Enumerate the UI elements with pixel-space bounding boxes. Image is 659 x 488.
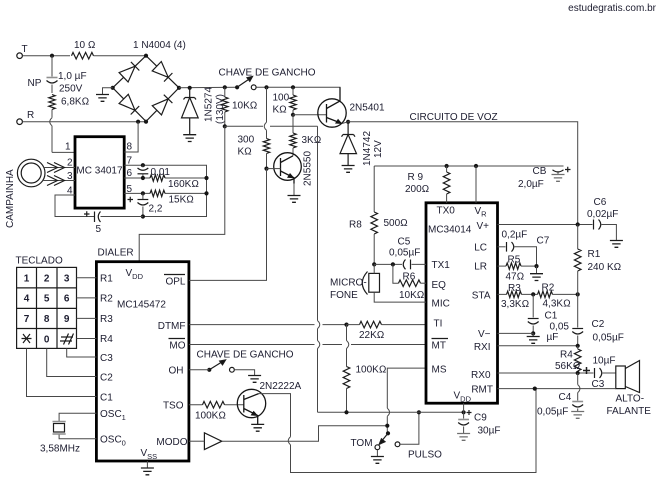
svg-text:NP: NP (28, 78, 42, 89)
wire VB rail 166 (374, 165, 557, 167)
svg-text:R2: R2 (542, 283, 555, 294)
svg-text:MS: MS (432, 365, 447, 376)
switch PULSO contact circle (395, 442, 400, 447)
wire 10ohm to bridge top (94, 55, 147, 57)
svg-text:100KΩ: 100KΩ (195, 411, 226, 422)
svg-text:22KΩ: 22KΩ (359, 330, 384, 341)
wire RMT row to speaker (498, 388, 616, 390)
diode D2 top-right (152, 62, 172, 82)
wire V+ row (498, 224, 593, 226)
svg-text:C9: C9 (474, 413, 487, 424)
svg-text:KΩ: KΩ (273, 105, 287, 116)
svg-text:MIC: MIC (432, 299, 450, 310)
node VDD C9 junction (462, 410, 466, 414)
capacitor C3 10uF polarized (583, 367, 616, 378)
svg-text:C1: C1 (545, 311, 558, 322)
svg-text:2N5550: 2N5550 (303, 151, 314, 186)
svg-text:estudegratis.com.br: estudegratis.com.br (568, 3, 656, 14)
svg-text:FALANTE: FALANTE (607, 406, 652, 417)
svg-text:TECLADO: TECLADO (16, 256, 63, 267)
svg-text:C7: C7 (537, 236, 550, 247)
resistor 160K (150, 175, 165, 181)
wire OH to switch (189, 369, 209, 371)
wire LR row (498, 265, 507, 267)
svg-text:CHAVE DE GANCHO: CHAVE DE GANCHO (219, 68, 316, 79)
resistor R9 200 (443, 166, 450, 203)
node PULSO junction (417, 410, 421, 414)
wire buffer out to MS line (222, 426, 387, 442)
ground 2N5550 emitter (288, 184, 301, 203)
microphone MICROFONE (362, 272, 379, 295)
resistor 100K vertical mid (343, 367, 350, 389)
wire pin4 to bottom (55, 195, 95, 217)
wire R line (23, 121, 147, 123)
resistor R4 56K (574, 346, 581, 373)
node RX0 junction (576, 371, 580, 375)
node C1 V- junction (531, 331, 535, 335)
wire RX0 row (498, 372, 594, 374)
svg-text:OH: OH (169, 366, 184, 377)
resistor 10K vertical (222, 87, 228, 126)
svg-text:8: 8 (44, 314, 50, 325)
terminal R (17, 119, 23, 125)
wire keypad row1 to R1 (77, 277, 97, 279)
switch hook top lever with arrow (237, 77, 252, 88)
wire 100K to bottom rail (346, 389, 348, 413)
IC U2 MC145472 (96, 262, 188, 461)
resistor R8 500 (371, 166, 378, 264)
node V+ junction (576, 222, 580, 226)
wire OPL to 2N5550 base (189, 169, 267, 281)
svg-text:DIALER: DIALER (98, 248, 134, 259)
svg-text:R1: R1 (100, 274, 113, 285)
svg-text:100: 100 (273, 93, 290, 104)
resistor 100K vertical (290, 87, 296, 115)
diode D3 bottom-left (119, 94, 139, 114)
wire VDD pin down (463, 403, 465, 412)
keypad star key (22, 334, 32, 343)
svg-text:0,05µF: 0,05µF (537, 407, 568, 418)
svg-text:C1: C1 (100, 393, 113, 404)
pin label MT overline (432, 339, 449, 352)
wire collector to voice line (342, 122, 348, 124)
svg-text:2: 2 (67, 158, 73, 169)
svg-text:30µF: 30µF (478, 426, 501, 437)
ground 1N5274 (183, 135, 196, 142)
switch hook OH contact circle (230, 367, 235, 372)
node 100K bottom base junction (291, 113, 295, 117)
resistor R3 3,3K (507, 291, 522, 297)
wire horizontal 10K-bottom to OPL-vertical corner (225, 125, 318, 127)
wire keypad row2 to R2 (77, 297, 97, 299)
svg-text:2N2222A: 2N2222A (260, 381, 302, 392)
svg-text:OPL: OPL (165, 277, 185, 288)
svg-text:0,2µF: 0,2µF (502, 230, 528, 241)
wire pin5 row (124, 192, 206, 194)
svg-text:0,05µF: 0,05µF (593, 333, 624, 344)
svg-text:200Ω: 200Ω (405, 184, 429, 195)
wire keypad col1 to C1 (27, 348, 97, 396)
svg-text:PULSO: PULSO (408, 450, 442, 461)
svg-text:4: 4 (24, 294, 30, 305)
resistor 15K (150, 190, 165, 196)
node switch common (386, 431, 390, 435)
wire rail from switch to 2N5401 emitter corner (256, 87, 340, 101)
wire V- row (498, 332, 534, 334)
resistor 100K TSO (203, 401, 225, 408)
node R2 right junction (576, 292, 580, 296)
node VR top (474, 164, 478, 168)
svg-text:10KΩ: 10KΩ (399, 290, 424, 301)
capacitor C2 0,05uF (572, 329, 583, 346)
svg-text:12V: 12V (373, 140, 384, 158)
ground C6 (610, 241, 623, 248)
diode bridge 1N4004 x4 frame (113, 56, 179, 122)
svg-text:V−: V− (478, 329, 491, 340)
node 1N5274 junction (188, 86, 192, 90)
resistor 6,8K (49, 95, 55, 110)
svg-text:300: 300 (238, 135, 255, 146)
svg-text:47Ω: 47Ω (506, 272, 525, 283)
svg-text:0: 0 (44, 334, 50, 345)
svg-text:DTMF: DTMF (158, 321, 186, 332)
pin label OPL overline (164, 275, 186, 288)
svg-text:9: 9 (64, 314, 70, 325)
wire keypad col3 to C3 (67, 348, 97, 357)
capacitor NP 1,0uF 250V (47, 56, 58, 93)
wire pin7 row (124, 165, 206, 216)
wire MO to MT with hops (189, 344, 426, 346)
svg-text:6,8KΩ: 6,8KΩ (61, 97, 89, 108)
ground OH switch (248, 376, 261, 383)
svg-text:TI: TI (434, 319, 443, 330)
svg-text:RXI: RXI (474, 342, 491, 353)
svg-text:3,3KΩ: 3,3KΩ (501, 299, 529, 310)
wire 2N5550 base (267, 168, 281, 170)
svg-text:R 9: R 9 (408, 172, 424, 183)
node RMT junction (533, 387, 537, 391)
keypad digits row2 (24, 294, 70, 305)
svg-text:MC34014: MC34014 (428, 225, 472, 236)
node pin6 cap junction (141, 176, 145, 180)
svg-text:C3: C3 (100, 353, 113, 364)
svg-text:15KΩ: 15KΩ (169, 195, 194, 206)
svg-text:C2: C2 (100, 373, 113, 384)
svg-text:R5: R5 (508, 255, 521, 266)
resistor 22K (360, 321, 382, 328)
node R pin8 junction (136, 120, 140, 124)
node RXI junction (576, 344, 580, 348)
svg-text:C2: C2 (592, 319, 605, 330)
svg-text:3KΩ: 3KΩ (302, 135, 322, 146)
capacitor C5 0,05uF (403, 260, 410, 270)
svg-text:C5: C5 (398, 237, 411, 248)
svg-text:TOM: TOM (351, 438, 373, 449)
node R9 top (445, 164, 449, 168)
node 100K bottom junction (344, 410, 348, 414)
wire LC row (498, 246, 506, 248)
wire pin8 to R line (124, 122, 138, 152)
node MS-MODO junction (385, 424, 389, 428)
svg-text:250V: 250V (59, 84, 83, 95)
wire bottom logic rail (318, 411, 464, 413)
wire circuito de voz (348, 122, 578, 225)
svg-text:CB: CB (533, 166, 547, 177)
node bridge right vertex (177, 86, 181, 90)
capacitor 0,2uF LC (507, 242, 514, 252)
wire MODO to buffer (189, 440, 205, 442)
svg-text:T: T (22, 44, 28, 55)
svg-text:10 Ω: 10 Ω (74, 40, 96, 51)
node bridge top vertex (144, 54, 148, 58)
svg-text:8: 8 (127, 142, 133, 153)
wire mic bottom to MIC (374, 292, 426, 302)
svg-text:5: 5 (44, 294, 50, 305)
node 100K top (291, 85, 295, 89)
svg-text:500Ω: 500Ω (384, 218, 408, 229)
wire 6,8K down hop over R line to pin1 (52, 110, 75, 153)
speaker ALTO-FALANTE (616, 361, 640, 393)
wire pin3 with arrow (43, 176, 75, 186)
svg-text:R3: R3 (100, 314, 113, 325)
wire 22K junction down to 100K with hop (347, 325, 349, 367)
svg-text:MODO: MODO (156, 437, 187, 448)
svg-text:TSO: TSO (163, 401, 184, 412)
wire VR vertical (475, 166, 477, 203)
node 15K right junction (204, 191, 208, 195)
node STA junction (531, 292, 535, 296)
svg-text:2: 2 (44, 273, 50, 284)
capacitor 2,2 polarized (128, 193, 149, 216)
svg-text:10µF: 10µF (593, 356, 616, 367)
ground at bridge left (96, 88, 113, 102)
capacitor CB 2,0uF (552, 166, 571, 181)
node 10K top (223, 85, 227, 89)
switch TOM-PULSO lever arrow (379, 433, 388, 444)
svg-text:MO: MO (169, 341, 185, 352)
wire bridge right to rail (179, 86, 237, 89)
node pin5 cap junction (141, 191, 145, 195)
zener 1N4742 12V (340, 122, 357, 166)
svg-text:R2: R2 (100, 294, 113, 305)
node pin7 cap junction (141, 163, 145, 167)
transistor Q3 2N2222A (237, 389, 265, 424)
svg-text:CAMPAINHA: CAMPAINHA (5, 169, 16, 228)
svg-text:R8: R8 (349, 220, 362, 231)
pin label MO overline (169, 339, 186, 352)
node 2N5401 collector junction (346, 120, 350, 124)
svg-text:R4: R4 (100, 334, 113, 345)
node 160K right junction (204, 176, 208, 180)
svg-text:LC: LC (474, 243, 487, 254)
svg-text:2N5401: 2N5401 (350, 103, 385, 114)
resistor 3K vertical (290, 115, 296, 156)
ground TOM (371, 450, 384, 464)
svg-text:CHAVE DE GANCHO: CHAVE DE GANCHO (197, 350, 294, 361)
capacitor C6 0,02uF (594, 220, 617, 241)
wire keypad col2 to C2 (47, 348, 97, 376)
svg-text:1,0 µF: 1,0 µF (58, 71, 87, 82)
node 2,2 bottom junction (141, 214, 145, 218)
svg-text:KΩ: KΩ (238, 147, 252, 158)
resistor R1 240K (574, 225, 581, 328)
transistor Q1 2N5401 (318, 87, 346, 127)
node 300K top (264, 85, 268, 89)
svg-text:V+: V+ (477, 221, 490, 232)
capacitor 5uF polarized inline (84, 211, 143, 222)
wire 22K to TI (347, 324, 427, 326)
svg-text:56KΩ: 56KΩ (555, 361, 580, 372)
wire PULSO up to rail (400, 412, 419, 444)
svg-text:100KΩ: 100KΩ (356, 365, 387, 376)
svg-text:R: R (27, 110, 34, 121)
node bridge left vertex (111, 86, 115, 90)
keypad hash key (60, 334, 74, 345)
svg-text:1: 1 (24, 273, 30, 284)
svg-text:RMT: RMT (471, 385, 493, 396)
ground VSS (141, 461, 154, 475)
svg-text:160KΩ: 160KΩ (168, 179, 199, 190)
svg-text:MC145472: MC145472 (117, 300, 166, 311)
node 22K TI junction (344, 323, 348, 327)
switch hook OH lever arrow (209, 360, 225, 370)
wire TSO row (189, 404, 244, 406)
svg-text:1 N4004 (4): 1 N4004 (4) (133, 40, 186, 51)
svg-text:1N5274: 1N5274 (204, 87, 215, 122)
wire keypad row4 to R4 (77, 338, 97, 340)
wire pin2 with arrow (44, 163, 75, 173)
ground LR (530, 266, 543, 280)
svg-text:ALTO-: ALTO- (616, 394, 645, 405)
wire LC cap to C7 corner (515, 247, 537, 266)
svg-text:0,05µF: 0,05µF (389, 248, 420, 259)
capacitor C1 0,05uF (528, 294, 539, 333)
crystal 3,58MHz (53, 413, 97, 439)
resistor R5 47 (506, 263, 521, 269)
wire T top line (23, 55, 71, 57)
zener 1N5274 130V (182, 88, 199, 135)
svg-text:2,0µF: 2,0µF (518, 179, 544, 190)
svg-text:C4: C4 (559, 392, 572, 403)
piezo ringer CAMPAINHA (17, 159, 45, 187)
svg-text:1: 1 (65, 142, 71, 153)
node LR junction (534, 264, 538, 268)
svg-text:RX0: RX0 (471, 370, 491, 381)
svg-text:0,05: 0,05 (550, 322, 570, 333)
svg-text:STA: STA (472, 291, 491, 302)
svg-text:MT: MT (432, 341, 446, 352)
svg-text:TX0: TX0 (437, 206, 456, 217)
svg-text:6: 6 (127, 168, 133, 179)
ground C1 (527, 333, 540, 343)
wire OH contact to ground (234, 370, 254, 376)
IC U1 MC34017 (75, 137, 124, 208)
resistor R2 4,3K (538, 291, 553, 297)
svg-text:EQ: EQ (432, 280, 447, 291)
switch hook top contact circle (251, 85, 256, 90)
switch hook OH pivot node (207, 368, 211, 372)
svg-text:3,58MHz: 3,58MHz (40, 444, 80, 455)
svg-text:FONE: FONE (330, 290, 358, 301)
resistor 10 ohm (72, 52, 94, 59)
svg-text:R3: R3 (508, 283, 521, 294)
resistor 300K vertical with hop (263, 87, 269, 168)
wire STA row (498, 293, 578, 295)
wire R5 to junction (521, 265, 537, 267)
svg-text:2,2: 2,2 (149, 204, 163, 215)
svg-text:LR: LR (474, 262, 487, 273)
terminal T (17, 53, 23, 59)
svg-text:R4: R4 (560, 350, 573, 361)
ground 2N2222A emitter (251, 424, 264, 431)
svg-text:C6: C6 (594, 197, 607, 208)
svg-text:5: 5 (96, 224, 102, 235)
wire VDD of dialer: down from 10K to dialer top (139, 126, 225, 261)
svg-text:6: 6 (64, 294, 70, 305)
wire TX1 row (374, 263, 426, 265)
svg-text:TX1: TX1 (432, 260, 451, 271)
transistor Q2 2N5550 (274, 153, 302, 184)
wire RXI row (498, 345, 578, 347)
wire MS from IC down with hop (387, 368, 426, 433)
diode D4 bottom-right (152, 95, 172, 115)
wire vertical OPL-crossing line with hops (318, 126, 320, 412)
svg-text:3: 3 (64, 273, 70, 284)
node 10K bottom VDD junction (223, 124, 227, 128)
svg-text:10KΩ: 10KΩ (232, 101, 257, 112)
capacitor 0,01 (138, 165, 149, 178)
node TX1 mic junction (372, 262, 376, 266)
IC U3 MC34014 (426, 203, 498, 403)
capacitor C9 30uF (457, 410, 471, 440)
diode D1 top-left (119, 62, 139, 82)
keypad digits row1 (24, 273, 70, 284)
keypad TECLADO grid (17, 267, 77, 348)
wire 2N2222A collector to bottom rail with hop (259, 389, 536, 473)
buffer MODO inverter (204, 433, 221, 450)
svg-text:4,3KΩ: 4,3KΩ (543, 299, 571, 310)
svg-text:0,02µF: 0,02µF (587, 209, 618, 220)
svg-text:MICRO-: MICRO- (330, 278, 367, 289)
capacitor C4 0,05uF with hop (571, 373, 584, 418)
ground 1N4742 (342, 166, 355, 173)
wire mic top (373, 264, 375, 273)
wire pin6 row (124, 177, 206, 179)
switch TOM contact circle (375, 445, 380, 450)
svg-text:7: 7 (24, 314, 30, 325)
node 2N5550 base junction (264, 167, 268, 171)
svg-text:R1: R1 (588, 249, 601, 260)
wire base 2N5401 (293, 114, 327, 116)
svg-text:R6: R6 (403, 272, 416, 283)
node bridge bottom vertex (144, 120, 148, 124)
svg-text:µF: µF (547, 332, 559, 343)
node T junction (50, 54, 54, 58)
node C5 junction (391, 262, 395, 266)
svg-text:240 KΩ: 240 KΩ (588, 262, 622, 273)
keypad digits row3 (24, 314, 70, 325)
wire keypad row3 to R3 (77, 317, 97, 319)
wire DTMF to 22K junction with hop (189, 324, 347, 326)
resistor R6 10K (393, 264, 426, 286)
switch hook top: pivot node (235, 85, 239, 89)
svg-text:1N4742: 1N4742 (362, 131, 373, 166)
svg-text:MC 34017: MC 34017 (76, 166, 123, 177)
